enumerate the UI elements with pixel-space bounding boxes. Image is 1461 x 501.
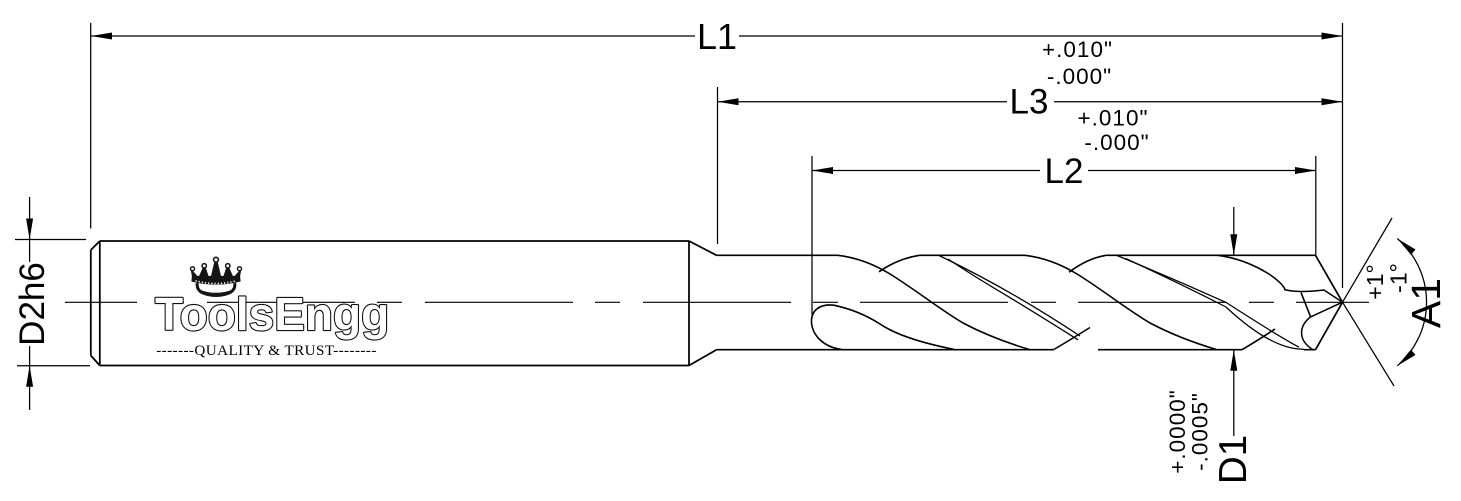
L1 arrowheads (91, 33, 1343, 40)
A1 angle arc (1397, 239, 1426, 366)
A1 angle line lower (1343, 302, 1395, 386)
point cone edges (1316, 255, 1343, 349)
svg-text:L1: L1 (697, 16, 737, 57)
body bottom edge (717, 349, 1316, 351)
L2 right extension line (1315, 156, 1317, 255)
margin line M2 upper (1117, 256, 1299, 348)
top hump H1 (879, 255, 920, 271)
logo crown (191, 257, 242, 295)
shank to neck chamfer (689, 241, 717, 366)
svg-text:-.0005": -.0005" (1188, 392, 1213, 471)
D1 dimension line bottom (1233, 350, 1235, 436)
svg-text:+.010": +.010" (1042, 37, 1113, 62)
A1 arc arrowhead top (1397, 239, 1415, 255)
margin line M1 upper (939, 256, 1080, 337)
svg-text:-.000": -.000" (1084, 130, 1149, 155)
dimension L1 line (91, 35, 1343, 37)
svg-text:-1°: -1° (1386, 263, 1412, 293)
svg-text:D2h6: D2h6 (13, 262, 52, 346)
svg-text:ToolsEngg: ToolsEngg (155, 288, 389, 340)
top hump H2 (1069, 255, 1106, 272)
L2 left extension line (811, 156, 813, 315)
body top edge (717, 254, 1316, 256)
D2h6 bottom extension line (17, 365, 90, 367)
bottom rising curve R3 (1242, 329, 1275, 350)
svg-text:-.000": -.000" (1047, 64, 1112, 89)
right extension line shared L1 L3 (1342, 23, 1344, 288)
dimension L2 line (812, 170, 1316, 172)
margin line M2 lower (1126, 259, 1305, 350)
flute curve F2 (1025, 255, 1216, 349)
A1 angle line upper (1343, 218, 1393, 302)
D2h6 arrowheads (26, 219, 33, 387)
point lip edge (1301, 293, 1311, 317)
svg-text:L3: L3 (1010, 83, 1049, 122)
flute curve F1 (838, 255, 1029, 349)
svg-text:+1°: +1° (1362, 264, 1388, 299)
L2 arrowheads (812, 167, 1316, 174)
D2h6 top extension line (15, 239, 86, 241)
dimension L3 line (718, 101, 1343, 103)
svg-text:+.0000": +.0000" (1165, 389, 1190, 473)
tip to lip line (1311, 302, 1343, 317)
D2h6 dimension line (29, 197, 31, 410)
bottom rising curve R2 (1054, 328, 1090, 350)
L1 left extension line (90, 23, 92, 229)
D1 arrowheads (1230, 234, 1237, 370)
A1 arc arrowhead bottom (1397, 350, 1415, 366)
flute curve F3 (1218, 255, 1285, 289)
svg-text:-------QUALITY & TRUST--------: -------QUALITY & TRUST-------- (156, 342, 377, 359)
flute start teardrop loop (811, 305, 842, 350)
L3 arrowheads (718, 98, 1343, 105)
D1 dimension line top (1233, 207, 1235, 255)
svg-text:D1: D1 (1212, 435, 1255, 484)
shank body (91, 241, 689, 366)
centerline (65, 301, 1369, 303)
svg-text:+.010": +.010" (1078, 106, 1149, 131)
L3 left extension line (717, 87, 719, 244)
point heel flank curve (1302, 317, 1313, 350)
flute start teardrop tail (835, 305, 955, 349)
margin line M1 lower (948, 259, 1078, 340)
point relief wavy line (1284, 290, 1343, 303)
svg-text:L2: L2 (1045, 152, 1084, 191)
